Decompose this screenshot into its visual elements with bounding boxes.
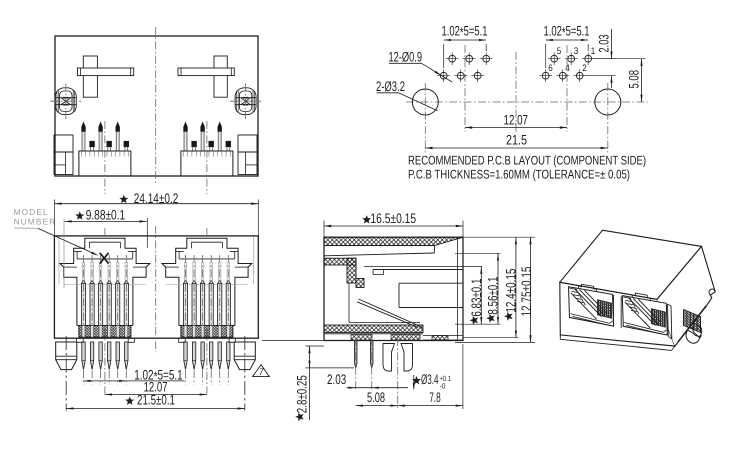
dim 16.5 side width (323, 221, 325, 237)
dim 12.4 (463, 337, 519, 339)
svg-text:2-Ø3.2: 2-Ø3.2 (376, 79, 405, 94)
pcb vertical centerline (515, 52, 517, 132)
dim 1.02*5 pin pitch (front) (84, 380, 127, 382)
oval mounting post, left (top view) (55, 88, 76, 115)
inner cavity step lines (364, 266, 482, 268)
side body outline (324, 237, 463, 340)
3d port A opening (3d view) (569, 287, 614, 326)
port 2 contact block (front view) (181, 326, 233, 338)
svg-text:12.4±0.15: 12.4±0.15 (504, 268, 519, 312)
svg-text:-0: -0 (440, 381, 446, 390)
leader to X mark (38, 228, 97, 254)
3d board lock hook (709, 289, 715, 295)
left hole-group centerline (464, 45, 466, 132)
svg-text:21.5±0.1: 21.5±0.1 (137, 393, 175, 408)
dim 12.07 group spacing (465, 127, 567, 129)
port 2 contacts (front view) (183, 262, 185, 281)
12x 0.9mm pin holes (449, 55, 456, 62)
dim 1.02*5=5.1 left group (443, 44, 445, 68)
port 1 centerline (front view) (104, 228, 106, 396)
contact spring (section) (359, 299, 421, 327)
oval mounting post, right (top view) (235, 88, 256, 115)
3d body front face (560, 282, 675, 346)
pcb horizontal centerline (406, 101, 648, 103)
3d port B opening (3d view) (622, 296, 667, 335)
side latch right (front view) (234, 342, 255, 370)
svg-text:24.14±0.2: 24.14±0.2 (134, 191, 179, 206)
stepped latch housing, right (top view) (238, 135, 257, 152)
svg-text:12.75±0.15: 12.75±0.15 (519, 266, 534, 316)
dim 21.5 mounting hole spacing (425, 147, 608, 149)
cross slot feature, port 2 (top view) (214, 56, 227, 97)
svg-text:1: 1 (591, 46, 596, 57)
svg-text:12-Ø0.9: 12-Ø0.9 (389, 50, 423, 65)
svg-text:2: 2 (582, 63, 587, 74)
label dia 3.4 post (412, 376, 421, 385)
3d body top face (560, 230, 702, 299)
3d mounting post (686, 330, 701, 343)
3d rear pin comb (684, 310, 701, 333)
svg-text:1.02*5=5.1: 1.02*5=5.1 (442, 23, 488, 40)
rear board-lock bar (section) (423, 335, 463, 337)
inner cavity wall (348, 283, 350, 323)
svg-text:Ø3.4: Ø3.4 (421, 372, 439, 387)
dim 12.07 port spacing (front) (105, 394, 207, 396)
baseline link to side view (262, 340, 324, 342)
revision triangle 7 (253, 365, 270, 377)
dim 24.14 overall width (53, 200, 55, 236)
dim 6.83 (480, 267, 482, 325)
dim 5.08 pin to post (356, 405, 398, 407)
centerline between ports (top view) (155, 27, 157, 183)
svg-text:6: 6 (548, 63, 553, 74)
stepped latch housing, left (top view) (54, 135, 73, 152)
dim 7.8 post to rear (398, 405, 463, 407)
top shield band (section) (324, 237, 463, 245)
mounting post legs (side view) (383, 344, 395, 372)
svg-text:2.03: 2.03 (597, 34, 612, 52)
dim 2.8 pin protrusion (306, 345, 325, 347)
front view centerline (155, 226, 157, 352)
pin housing block, port 2 (top view) (181, 151, 233, 176)
port 2 solder pins (front view) (184, 342, 187, 370)
3d body right face (657, 246, 715, 346)
inner top line and taper (324, 253, 434, 256)
svg-text:2.8±0.25: 2.8±0.25 (295, 375, 310, 413)
mounting hole right 3.2mm (595, 89, 621, 115)
svg-text:P.C.B THICKNESS=1.60MM (TOLE: P.C.B THICKNESS=1.60MM (TOLERANCE=± 0.05… (408, 167, 630, 181)
dim 8.56 (455, 252, 501, 254)
contact comb of 3d port B opening (3d view) (651, 309, 665, 327)
svg-text:5.08: 5.08 (367, 390, 385, 405)
port 2 centerline (front view) (206, 228, 208, 396)
port 1 contact block (front view) (79, 326, 131, 338)
dim 2.03 pin spacing (side) (347, 387, 409, 389)
bottom wall (section) (324, 325, 423, 333)
port 1 contacts (front view) (81, 262, 83, 281)
svg-text:5.08: 5.08 (626, 70, 641, 89)
dim 2.03 row pitch (592, 58, 615, 60)
svg-text:2.03: 2.03 (327, 372, 346, 387)
svg-text:7: 7 (259, 367, 264, 378)
svg-text:3: 3 (574, 46, 579, 57)
solder pins, port 2 (top view) (184, 123, 188, 132)
pin 1 (side view) (355, 341, 358, 368)
side latch left (front view) (56, 342, 77, 370)
svg-text:7.8: 7.8 (429, 390, 441, 405)
dim 21.5 latch spacing (front) (66, 408, 245, 410)
dim 12.75 (463, 236, 535, 238)
3d base lip (559, 335, 561, 339)
3d divider wall between ports (613, 295, 615, 327)
svg-text:5: 5 (557, 46, 562, 57)
right hole-group centerline (566, 45, 568, 132)
contact carrier block (section) (399, 282, 463, 284)
contact comb of 3d port A opening (3d view) (598, 300, 612, 318)
port 1 centerline (top view) (104, 121, 106, 194)
front body outline (54, 236, 258, 338)
svg-text:12.07: 12.07 (504, 112, 529, 127)
svg-text:RECOMMENDED P.C.B LAYOUT (C: RECOMMENDED P.C.B LAYOUT (COMPONENT SIDE… (408, 154, 646, 168)
port 1 port opening (front view) (60, 238, 150, 325)
pin 2 (side view) (371, 341, 374, 368)
svg-text:8.56±0.1: 8.56±0.1 (486, 277, 501, 315)
standoff tabs under body (front view) (77, 338, 84, 342)
dim 9.88 port width (63, 219, 65, 288)
svg-text:6.83±0.1: 6.83±0.1 (469, 279, 484, 317)
left shield ledge (section) (324, 258, 356, 265)
dim 1.02*5=5.1 right group (545, 44, 547, 68)
solder pins, port 1 (top view) (82, 123, 86, 132)
dim 5.08 row to mounting hole (592, 58, 645, 60)
port 2 centerline (top view) (206, 121, 208, 194)
pin housing block, port 1 (top view) (79, 151, 131, 176)
cross slot feature, port 1 (top view) (83, 56, 97, 97)
port 2 port opening (front view) (162, 238, 252, 325)
connector body outline (top view) (55, 36, 258, 176)
mounting hole left 3.2mm (412, 89, 438, 115)
svg-text:21.5: 21.5 (506, 132, 527, 147)
port 1 solder pins (front view) (82, 342, 85, 370)
svg-text:NUMBER: NUMBER (14, 217, 57, 227)
3d right jamb steps (667, 304, 670, 336)
model number X mark (100, 253, 109, 264)
svg-text:1.02*5=5.1: 1.02*5=5.1 (544, 23, 590, 40)
svg-text:4: 4 (565, 63, 570, 74)
svg-text:9.88±0.1: 9.88±0.1 (86, 207, 126, 222)
svg-text:16.5±0.15: 16.5±0.15 (370, 211, 416, 226)
3d right face base line (678, 306, 707, 343)
